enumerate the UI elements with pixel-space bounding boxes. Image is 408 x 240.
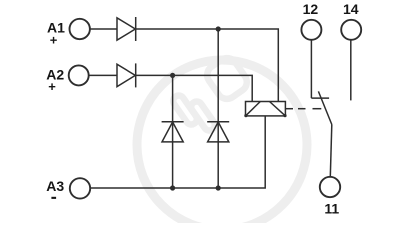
terminal A1	[70, 19, 90, 39]
wire suppressor branch A2	[172, 75, 174, 188]
svg-text:A3: A3	[46, 178, 64, 194]
diode V1	[117, 17, 136, 41]
wire A1 terminal to diode	[90, 28, 117, 30]
wire A1 rail to relay input	[136, 29, 279, 102]
junction on A2 rail	[170, 73, 175, 78]
wire blade to terminal 11	[330, 125, 332, 177]
actuation link (dashed)	[285, 108, 321, 110]
wire A2 terminal to diode	[89, 74, 117, 76]
diode V2	[117, 63, 136, 87]
svg-text:11: 11	[324, 201, 339, 217]
contact blade	[318, 91, 331, 124]
contact seat 12	[311, 97, 329, 99]
terminal 12	[301, 20, 321, 40]
wire A2 rail to relay input	[136, 75, 253, 101]
diode V3	[162, 122, 184, 142]
wire terminal 12 to contact	[310, 40, 312, 98]
svg-text:14: 14	[343, 1, 359, 17]
label A3 polarity -	[51, 197, 56, 199]
diode V4	[207, 122, 229, 142]
relay coil K1	[244, 102, 286, 118]
junction A3 rail right	[216, 185, 221, 190]
wire terminal 14	[350, 40, 352, 101]
wire A3 rail to relay coil bottom	[90, 116, 265, 188]
svg-text:+: +	[50, 32, 58, 47]
wire suppressor branch A1	[217, 29, 219, 188]
junction on A1 rail	[216, 26, 221, 31]
terminal 11	[320, 177, 340, 197]
junction A3 rail left	[170, 185, 175, 190]
terminal A3	[70, 178, 90, 198]
svg-text:12: 12	[303, 1, 319, 17]
svg-text:+: +	[48, 79, 56, 94]
terminal 14	[341, 20, 361, 40]
terminal A2	[69, 65, 89, 85]
